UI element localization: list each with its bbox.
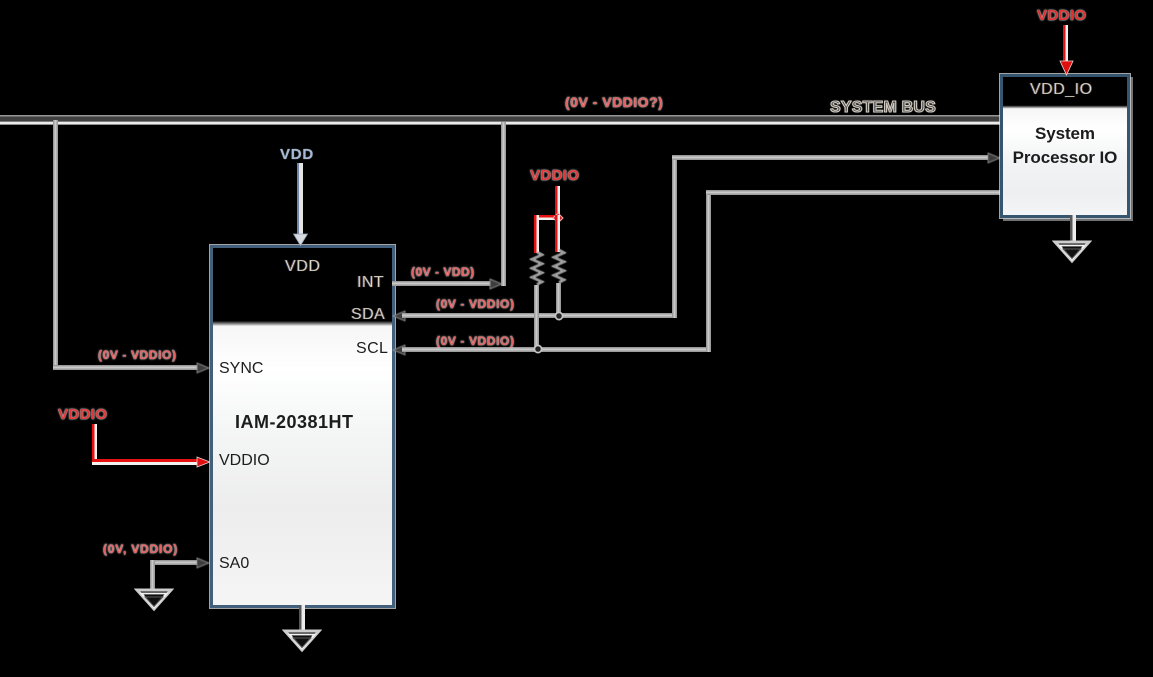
net label (0V - VDDIO?) on bus — [565, 94, 663, 110]
ground symbol at SA0 — [134, 588, 174, 612]
wire: right resistor down to SDA — [556, 283, 561, 317]
wire: SA0 down to ground — [150, 560, 155, 591]
wire: red VDDIO down to tee — [555, 186, 560, 219]
red arrowhead into VDDIO pin — [196, 456, 211, 468]
net label (0V - VDDIO) on SYNC wire — [98, 348, 177, 362]
wire: bus down to SYNC (vertical at x=55) — [53, 120, 58, 369]
arrowhead into SDA pin — [392, 310, 406, 322]
pin label VDD IO — [1030, 81, 1093, 99]
pin label SCL — [356, 340, 388, 358]
blue arrowhead into VDD pin — [292, 233, 309, 247]
wire: left resistor down to SCL — [534, 285, 539, 351]
supply label VDDIO (left, red) — [58, 406, 108, 423]
wire: red VDDIO down to block — [1063, 25, 1068, 65]
ground symbol below System block — [1052, 240, 1092, 264]
wire: red to right resistor top — [555, 215, 560, 252]
wire: VDD arrow line (blue ghost) — [297, 163, 303, 235]
wire: SCL to System Processor horizontal — [706, 190, 1003, 195]
System Processor IO block — [1000, 74, 1130, 218]
wire: red VDDIO elbow to VDDIO pin — [92, 424, 97, 462]
wire: System block bottom to ground — [1070, 215, 1076, 244]
wire: red tee horizontal — [534, 215, 560, 220]
net label (0V - VDDIO) on SDA wire — [436, 297, 515, 311]
junction dot (red diamond) — [552, 212, 564, 224]
resistor R1 (pull-up on SCL) — [527, 251, 547, 287]
pin label SDA — [351, 306, 385, 324]
IAM-20381HT block — [210, 245, 395, 608]
arrowhead into SCL pin — [392, 344, 406, 356]
wire: SCL vertical up — [706, 191, 711, 352]
system bus (thick horizontal line at top) — [0, 115, 1003, 125]
wire: SDA horizontal — [402, 313, 677, 318]
block title System Processor IO — [1000, 122, 1130, 170]
arrowhead into System Processor IO — [987, 152, 1001, 164]
pin label SYNC — [219, 360, 263, 378]
pin label SA0 — [219, 555, 249, 573]
wire: red to left resistor top — [534, 215, 539, 253]
pin label VDD (inside top) — [285, 258, 321, 276]
pin label INT — [357, 274, 384, 292]
supply label VDDIO (top right, red) — [1037, 7, 1087, 24]
wire: SDA vertical up — [672, 156, 677, 318]
net label SYSTEM BUS — [830, 99, 936, 117]
net label (0V, VDDIO) on SA0 wire — [103, 542, 178, 556]
red arrowhead into VDD_IO pin — [1059, 60, 1074, 77]
ground symbol below IAM block — [282, 629, 322, 653]
wire: SCL horizontal — [402, 347, 711, 352]
wire: SDA to System Processor horizontal — [672, 155, 988, 160]
wire: SA0 horizontal — [150, 560, 197, 565]
arrowhead INT to bus-drop — [489, 278, 503, 290]
arrowhead into SYNC pin — [196, 362, 210, 374]
net label (0V - VDD) on INT wire — [411, 265, 475, 279]
supply label VDDIO (pull-ups, red) — [530, 167, 580, 184]
supply label VDD (blue) — [280, 146, 314, 163]
junction dot on SCL — [532, 343, 544, 355]
pin label VDDIO — [219, 452, 270, 470]
wire: INT horizontal — [392, 281, 491, 286]
wire: SYNC horizontal — [53, 365, 198, 370]
wire: IAM block bottom to ground — [299, 605, 305, 633]
resistor R2 (pull-up on SDA) — [549, 249, 569, 285]
junction dot on SDA — [553, 310, 565, 322]
arrowhead into SA0 pin — [196, 557, 210, 569]
wire: vertical from bus to INT arrow — [501, 122, 506, 286]
part name IAM-20381HT — [235, 412, 354, 433]
net label (0V - VDDIO) on SCL wire — [436, 334, 515, 348]
